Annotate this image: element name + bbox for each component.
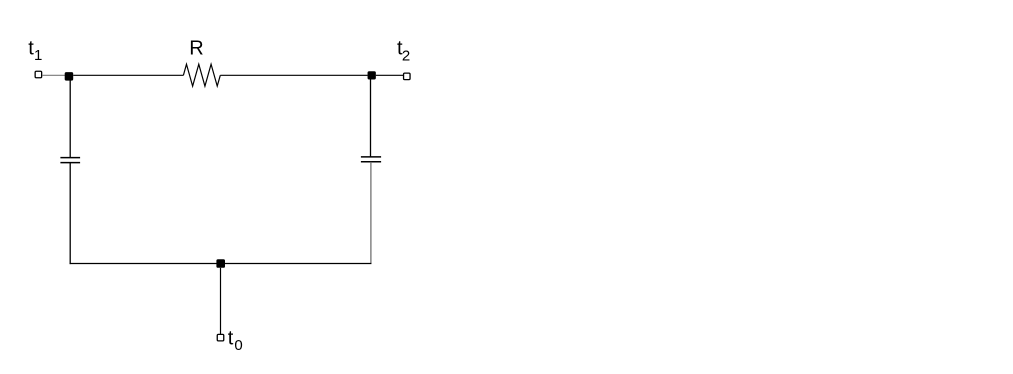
wire t1 to node A xyxy=(42,74,65,76)
svg-text:R: R xyxy=(189,38,203,60)
junction node B xyxy=(368,71,376,79)
resistor R xyxy=(183,64,220,86)
junction node A xyxy=(65,72,74,81)
wire node B down to capacitor C2 xyxy=(370,80,372,157)
label t1 xyxy=(28,38,42,65)
capacitor C1 xyxy=(60,158,80,163)
capacitor C2 xyxy=(361,157,381,162)
wire node B to t2 xyxy=(376,74,403,76)
svg-text:1: 1 xyxy=(34,47,42,64)
wire capacitor C2 down to bottom wire xyxy=(370,162,372,264)
bottom wire xyxy=(70,263,372,265)
wire resistor to node B xyxy=(220,74,367,76)
wire capacitor C1 down to bottom wire xyxy=(69,163,71,265)
terminal t0 xyxy=(217,334,224,341)
wire node C down to t0 xyxy=(220,268,222,334)
svg-text:2: 2 xyxy=(402,47,410,64)
label t2 xyxy=(397,38,410,65)
terminal t1 xyxy=(35,71,42,78)
svg-text:t: t xyxy=(228,328,234,350)
svg-text:0: 0 xyxy=(234,337,242,354)
label t0 xyxy=(228,328,243,355)
wire node A to resistor xyxy=(73,74,183,76)
wire node A down to capacitor C1 xyxy=(69,80,71,158)
junction node C xyxy=(216,259,225,268)
terminal t2 xyxy=(404,73,411,80)
